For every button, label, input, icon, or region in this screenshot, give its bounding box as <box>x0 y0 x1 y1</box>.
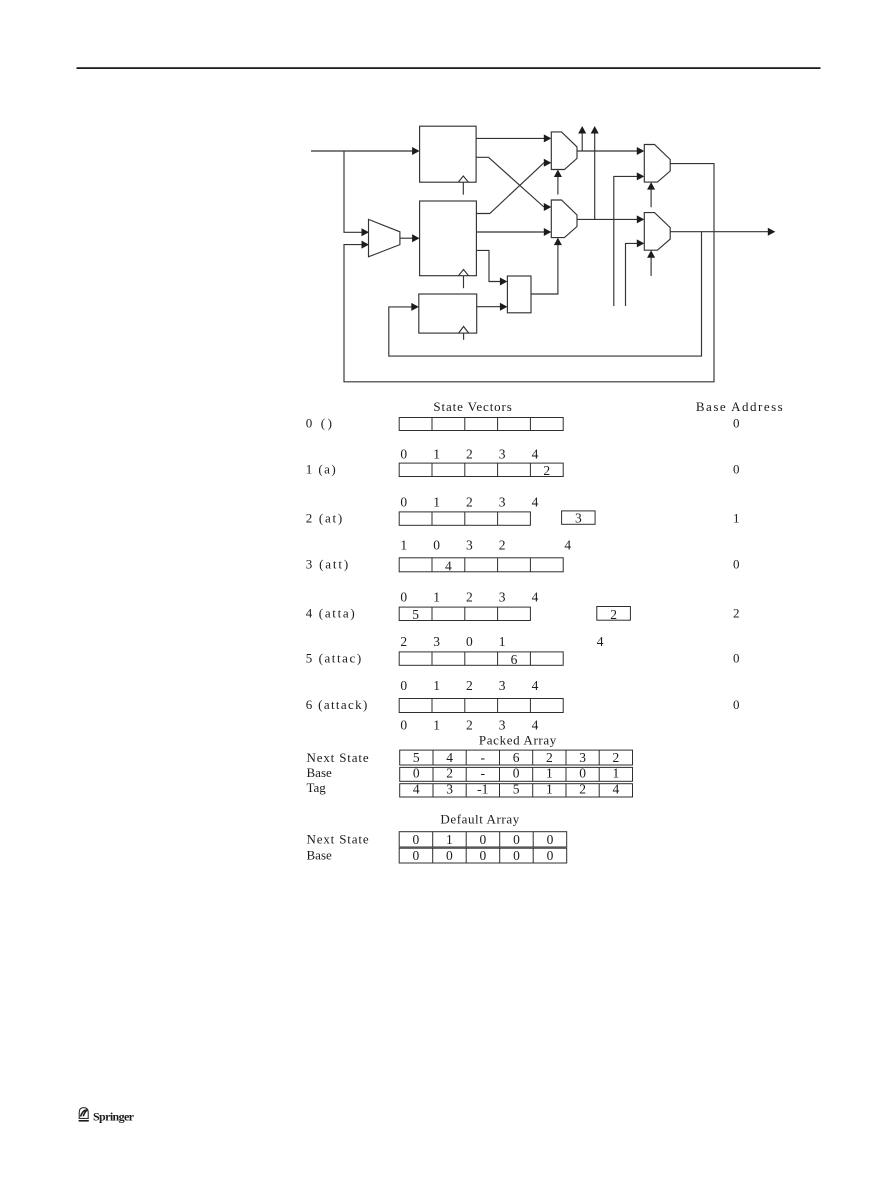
clock pin R1 <box>458 176 468 195</box>
svg-text:3: 3 <box>499 494 506 509</box>
svg-text:2: 2 <box>546 750 553 765</box>
svg-text:4: 4 <box>532 447 539 462</box>
index digits row 5 <box>400 634 603 649</box>
svg-text:3: 3 <box>499 678 506 693</box>
svg-text:0 (): 0 () <box>306 416 332 431</box>
svg-text:State Vectors: State Vectors <box>433 399 511 414</box>
svg-text:0: 0 <box>433 537 440 552</box>
svg-text:0: 0 <box>446 848 453 863</box>
wire: lower stub input to mux M4 <box>626 239 645 306</box>
svg-text:2: 2 <box>610 607 617 622</box>
index digits row 2 <box>400 494 538 509</box>
wire: tag box output to mux M2 select <box>531 238 562 294</box>
svg-text:4: 4 <box>446 750 453 765</box>
wire: feedback from OUT to R3 input <box>389 232 702 356</box>
default array next-state row <box>399 832 567 847</box>
svg-text:2: 2 <box>466 447 473 462</box>
svg-text:1: 1 <box>433 717 440 732</box>
svg-text:1: 1 <box>433 447 440 462</box>
svg-text:5: 5 <box>413 750 420 765</box>
svg-text:3: 3 <box>499 717 506 732</box>
svg-text:4: 4 <box>532 717 539 732</box>
svg-text:0: 0 <box>400 678 407 693</box>
svg-text:1: 1 <box>613 766 620 781</box>
index digits row 3 <box>400 537 571 552</box>
svg-text:0: 0 <box>733 462 740 477</box>
state vector row 5 (attac): box <box>399 652 563 665</box>
wire: lower stub input to mux M3 <box>614 172 645 306</box>
wire: mux M3 output feedback to mux A lower input <box>344 164 714 382</box>
index digits row 1 <box>400 447 538 462</box>
svg-text:2: 2 <box>446 766 453 781</box>
state vector row 1 (a): box <box>399 463 563 476</box>
svg-text:5 (attac): 5 (attac) <box>306 650 362 665</box>
svg-text:4: 4 <box>532 678 539 693</box>
wire: R1 output to mux M1 upper input <box>476 134 551 142</box>
svg-text:4 (atta): 4 (atta) <box>306 606 355 621</box>
svg-text:0: 0 <box>400 447 407 462</box>
svg-text:1: 1 <box>433 494 440 509</box>
svg-text:6 (attack): 6 (attack) <box>306 697 368 712</box>
svg-text:4: 4 <box>445 559 452 574</box>
svg-text:-1: -1 <box>477 782 488 797</box>
svg-text:4: 4 <box>613 782 620 797</box>
mux M4 <box>644 213 670 251</box>
svg-text:3: 3 <box>466 537 473 552</box>
wire: R2 output crossing to mux M1 lower input <box>476 159 551 214</box>
svg-text:0: 0 <box>413 832 420 847</box>
packed array next-state row <box>400 750 633 765</box>
svg-text:4: 4 <box>597 634 604 649</box>
svg-text:2 (at): 2 (at) <box>306 510 343 525</box>
svg-text:2: 2 <box>499 537 506 552</box>
wire: state output up-arrow 1 <box>578 126 586 151</box>
packed array tag row <box>400 784 633 797</box>
svg-text:4: 4 <box>532 494 539 509</box>
svg-text:2: 2 <box>466 717 473 732</box>
clock pin R3 <box>459 327 469 340</box>
svg-text:2: 2 <box>400 634 407 649</box>
state vector row 2 (at): box <box>399 512 530 525</box>
svg-text:0: 0 <box>400 494 407 509</box>
svg-text:5: 5 <box>513 782 520 797</box>
svg-text:1: 1 <box>433 678 440 693</box>
svg-text:1: 1 <box>433 590 440 605</box>
header rule <box>77 67 821 69</box>
svg-text:1: 1 <box>546 766 553 781</box>
wire: R2 output to mux M2 lower input <box>476 228 551 236</box>
svg-text:Next State: Next State <box>307 750 369 765</box>
state vector row 3 (att): box <box>399 558 563 572</box>
svg-text:0: 0 <box>733 416 740 431</box>
svg-text:3: 3 <box>433 634 440 649</box>
svg-text:1: 1 <box>546 782 553 797</box>
svg-text:0: 0 <box>513 766 520 781</box>
mux M3 <box>644 145 670 183</box>
svg-text:Springer: Springer <box>93 1110 135 1124</box>
wire: R1 output crossing to mux M2 upper input <box>476 157 551 211</box>
svg-text:5: 5 <box>412 607 419 622</box>
wire: mux M4 output net OUT <box>670 228 775 236</box>
svg-text:2: 2 <box>466 494 473 509</box>
svg-text:4: 4 <box>532 590 539 605</box>
state vector row 0: box <box>399 418 563 431</box>
mux A (input funnel) <box>369 219 400 256</box>
wire: input tap to mux A upper input <box>344 151 369 236</box>
svg-text:2: 2 <box>543 463 550 478</box>
svg-text:-: - <box>481 750 486 765</box>
svg-text:0: 0 <box>413 766 420 781</box>
state vector row 4 (atta): box <box>399 607 530 620</box>
svg-text:2: 2 <box>733 606 740 621</box>
index digits row 6 bottom <box>400 717 538 732</box>
tag comparator box U5 <box>507 276 531 313</box>
svg-text:3: 3 <box>579 750 586 765</box>
state vector row 6 (attack): box <box>399 699 563 713</box>
svg-text:0: 0 <box>513 848 520 863</box>
svg-text:0: 0 <box>547 848 554 863</box>
svg-text:1: 1 <box>400 537 407 552</box>
svg-text:0: 0 <box>513 832 520 847</box>
svg-text:Base: Base <box>307 848 333 863</box>
packed array values y=793.6 <box>413 782 620 797</box>
svg-text:3: 3 <box>499 590 506 605</box>
svg-text:3: 3 <box>446 782 453 797</box>
svg-text:2: 2 <box>579 782 586 797</box>
svg-text:0: 0 <box>579 766 586 781</box>
clock pin R2 <box>458 270 468 289</box>
svg-text:1: 1 <box>733 510 740 525</box>
state vector row 4 overflow cell <box>597 607 631 621</box>
svg-text:3 (att): 3 (att) <box>306 557 349 572</box>
svg-text:Default Array: Default Array <box>440 812 519 827</box>
svg-text:6: 6 <box>511 652 518 667</box>
svg-text:-: - <box>481 766 486 781</box>
svg-text:0: 0 <box>413 848 420 863</box>
index digits row 4 <box>400 590 538 605</box>
svg-text:0: 0 <box>480 832 487 847</box>
index digits row 6 top <box>400 678 538 693</box>
svg-text:0: 0 <box>733 697 740 712</box>
svg-text:0: 0 <box>400 717 407 732</box>
state vector row 2 overflow cell <box>562 511 596 524</box>
svg-text:Base Address: Base Address <box>696 399 783 414</box>
svg-text:0: 0 <box>400 590 407 605</box>
mux M2 <box>551 200 577 238</box>
svg-text:4: 4 <box>564 537 571 552</box>
svg-text:0: 0 <box>466 634 473 649</box>
wire: mux A output to R2 <box>400 234 420 242</box>
wire: mux M1 output to mux M3 upper input <box>577 147 644 155</box>
register R2 <box>420 201 477 276</box>
svg-text:3: 3 <box>575 510 582 525</box>
svg-text:0: 0 <box>733 650 740 665</box>
svg-text:4: 4 <box>413 782 420 797</box>
register R1 <box>420 126 477 182</box>
svg-text:3: 3 <box>499 447 506 462</box>
packed array base row <box>400 767 633 781</box>
svg-text:0: 0 <box>733 557 740 572</box>
wire: mux M2 output to mux M4 upper input <box>577 215 644 223</box>
default array values y=860.2 <box>413 848 554 863</box>
packed array values y=762.0 <box>413 750 619 765</box>
svg-text:1 (a): 1 (a) <box>306 462 336 477</box>
svg-text:Packed Array: Packed Array <box>479 733 557 748</box>
svg-text:6: 6 <box>513 750 520 765</box>
svg-text:Tag: Tag <box>307 780 327 795</box>
springer logo icon <box>79 1108 89 1121</box>
default array values y=844.0 <box>413 832 554 847</box>
svg-text:2: 2 <box>466 590 473 605</box>
wire: state output up-arrow 2 <box>591 126 599 219</box>
wire: mux M1 select stub <box>554 170 562 195</box>
svg-text:1: 1 <box>499 634 506 649</box>
svg-text:Next State: Next State <box>307 832 369 847</box>
packed array values y=777.7 <box>413 766 619 781</box>
svg-text:2: 2 <box>466 678 473 693</box>
svg-text:Base: Base <box>307 765 333 780</box>
svg-text:0: 0 <box>480 848 487 863</box>
wire: R3 output to tag box lower input <box>477 303 508 311</box>
register R3 <box>419 294 477 333</box>
svg-text:0: 0 <box>547 832 554 847</box>
svg-text:1: 1 <box>446 832 453 847</box>
wire: mux M4 select stub <box>647 250 655 276</box>
svg-text:2: 2 <box>613 750 620 765</box>
mux M1 <box>551 132 577 170</box>
wire: mux M3 select stub <box>647 182 655 207</box>
wire: R2 output to tag box upper input <box>476 250 507 285</box>
default array base row <box>399 848 567 863</box>
wire: primary input net IN <box>311 147 420 155</box>
